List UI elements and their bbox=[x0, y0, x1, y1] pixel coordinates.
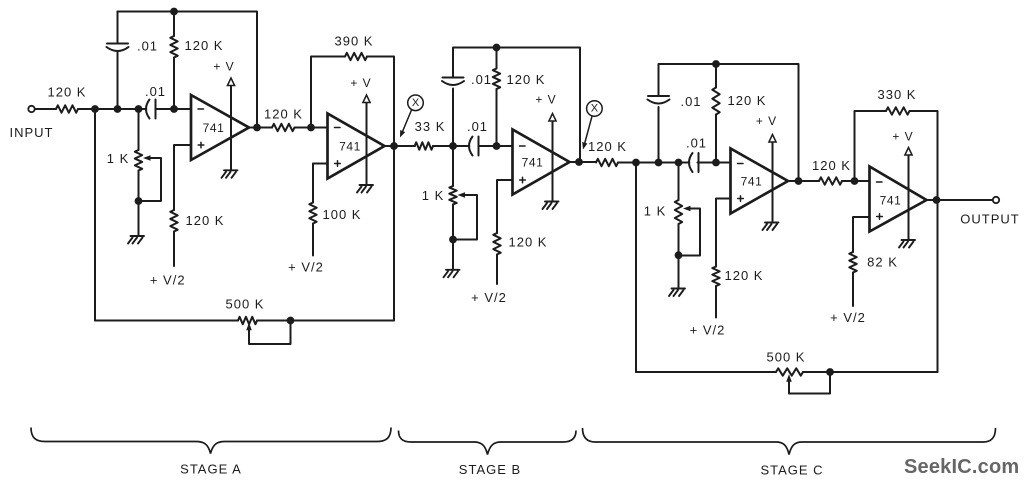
svg-text:120 K: 120 K bbox=[509, 235, 548, 250]
svg-text:+ V: + V bbox=[213, 60, 234, 74]
svg-text:741: 741 bbox=[880, 193, 902, 207]
svg-text:741: 741 bbox=[741, 174, 763, 188]
svg-text:X: X bbox=[412, 97, 420, 109]
svg-text:+ V: + V bbox=[350, 76, 371, 90]
svg-text:120 K: 120 K bbox=[507, 72, 546, 87]
svg-text:390 K: 390 K bbox=[335, 34, 374, 49]
svg-text:+ V/2: + V/2 bbox=[150, 273, 186, 288]
svg-text:.01: .01 bbox=[680, 94, 701, 109]
svg-text:.01: .01 bbox=[467, 119, 488, 134]
svg-text:120 K: 120 K bbox=[725, 268, 764, 283]
svg-text:+ V/2: + V/2 bbox=[288, 260, 324, 275]
svg-text:741: 741 bbox=[522, 155, 544, 169]
svg-text:SeekIC.com: SeekIC.com bbox=[904, 456, 1019, 478]
svg-text:1 K: 1 K bbox=[107, 151, 130, 166]
svg-text:741: 741 bbox=[339, 139, 361, 153]
svg-text:120 K: 120 K bbox=[186, 213, 225, 228]
svg-text:500 K: 500 K bbox=[226, 297, 265, 312]
svg-text:741: 741 bbox=[203, 121, 225, 135]
svg-text:120 K: 120 K bbox=[264, 107, 303, 122]
svg-text:INPUT: INPUT bbox=[10, 125, 54, 140]
svg-text:120 K: 120 K bbox=[812, 158, 851, 173]
svg-text:+ V: + V bbox=[535, 93, 556, 107]
svg-text:+ V/2: + V/2 bbox=[830, 310, 866, 325]
svg-text:33 K: 33 K bbox=[415, 119, 446, 134]
svg-text:.01: .01 bbox=[137, 39, 158, 54]
svg-text:+ V/2: + V/2 bbox=[690, 323, 726, 338]
svg-text:120 K: 120 K bbox=[185, 38, 224, 53]
svg-text:.01: .01 bbox=[471, 72, 492, 87]
svg-text:+ V: + V bbox=[756, 114, 777, 128]
svg-text:100 K: 100 K bbox=[323, 207, 362, 222]
svg-text:120 K: 120 K bbox=[588, 139, 627, 154]
svg-text:120 K: 120 K bbox=[728, 93, 767, 108]
svg-text:.01: .01 bbox=[686, 135, 707, 150]
svg-text:1 K: 1 K bbox=[644, 203, 667, 218]
svg-text:+ V/2: + V/2 bbox=[471, 290, 507, 305]
svg-text:+ V: + V bbox=[892, 130, 913, 144]
svg-text:STAGE B: STAGE B bbox=[459, 462, 521, 477]
svg-text:OUTPUT: OUTPUT bbox=[960, 212, 1019, 227]
svg-text:120 K: 120 K bbox=[48, 85, 87, 100]
svg-text:STAGE C: STAGE C bbox=[760, 463, 823, 478]
svg-text:1 K: 1 K bbox=[422, 188, 445, 203]
svg-text:82 K: 82 K bbox=[867, 255, 898, 270]
svg-text:.01: .01 bbox=[145, 84, 166, 99]
svg-text:330 K: 330 K bbox=[878, 87, 917, 102]
svg-text:500 K: 500 K bbox=[767, 350, 806, 365]
svg-text:STAGE A: STAGE A bbox=[180, 462, 242, 477]
svg-text:X: X bbox=[591, 103, 599, 115]
